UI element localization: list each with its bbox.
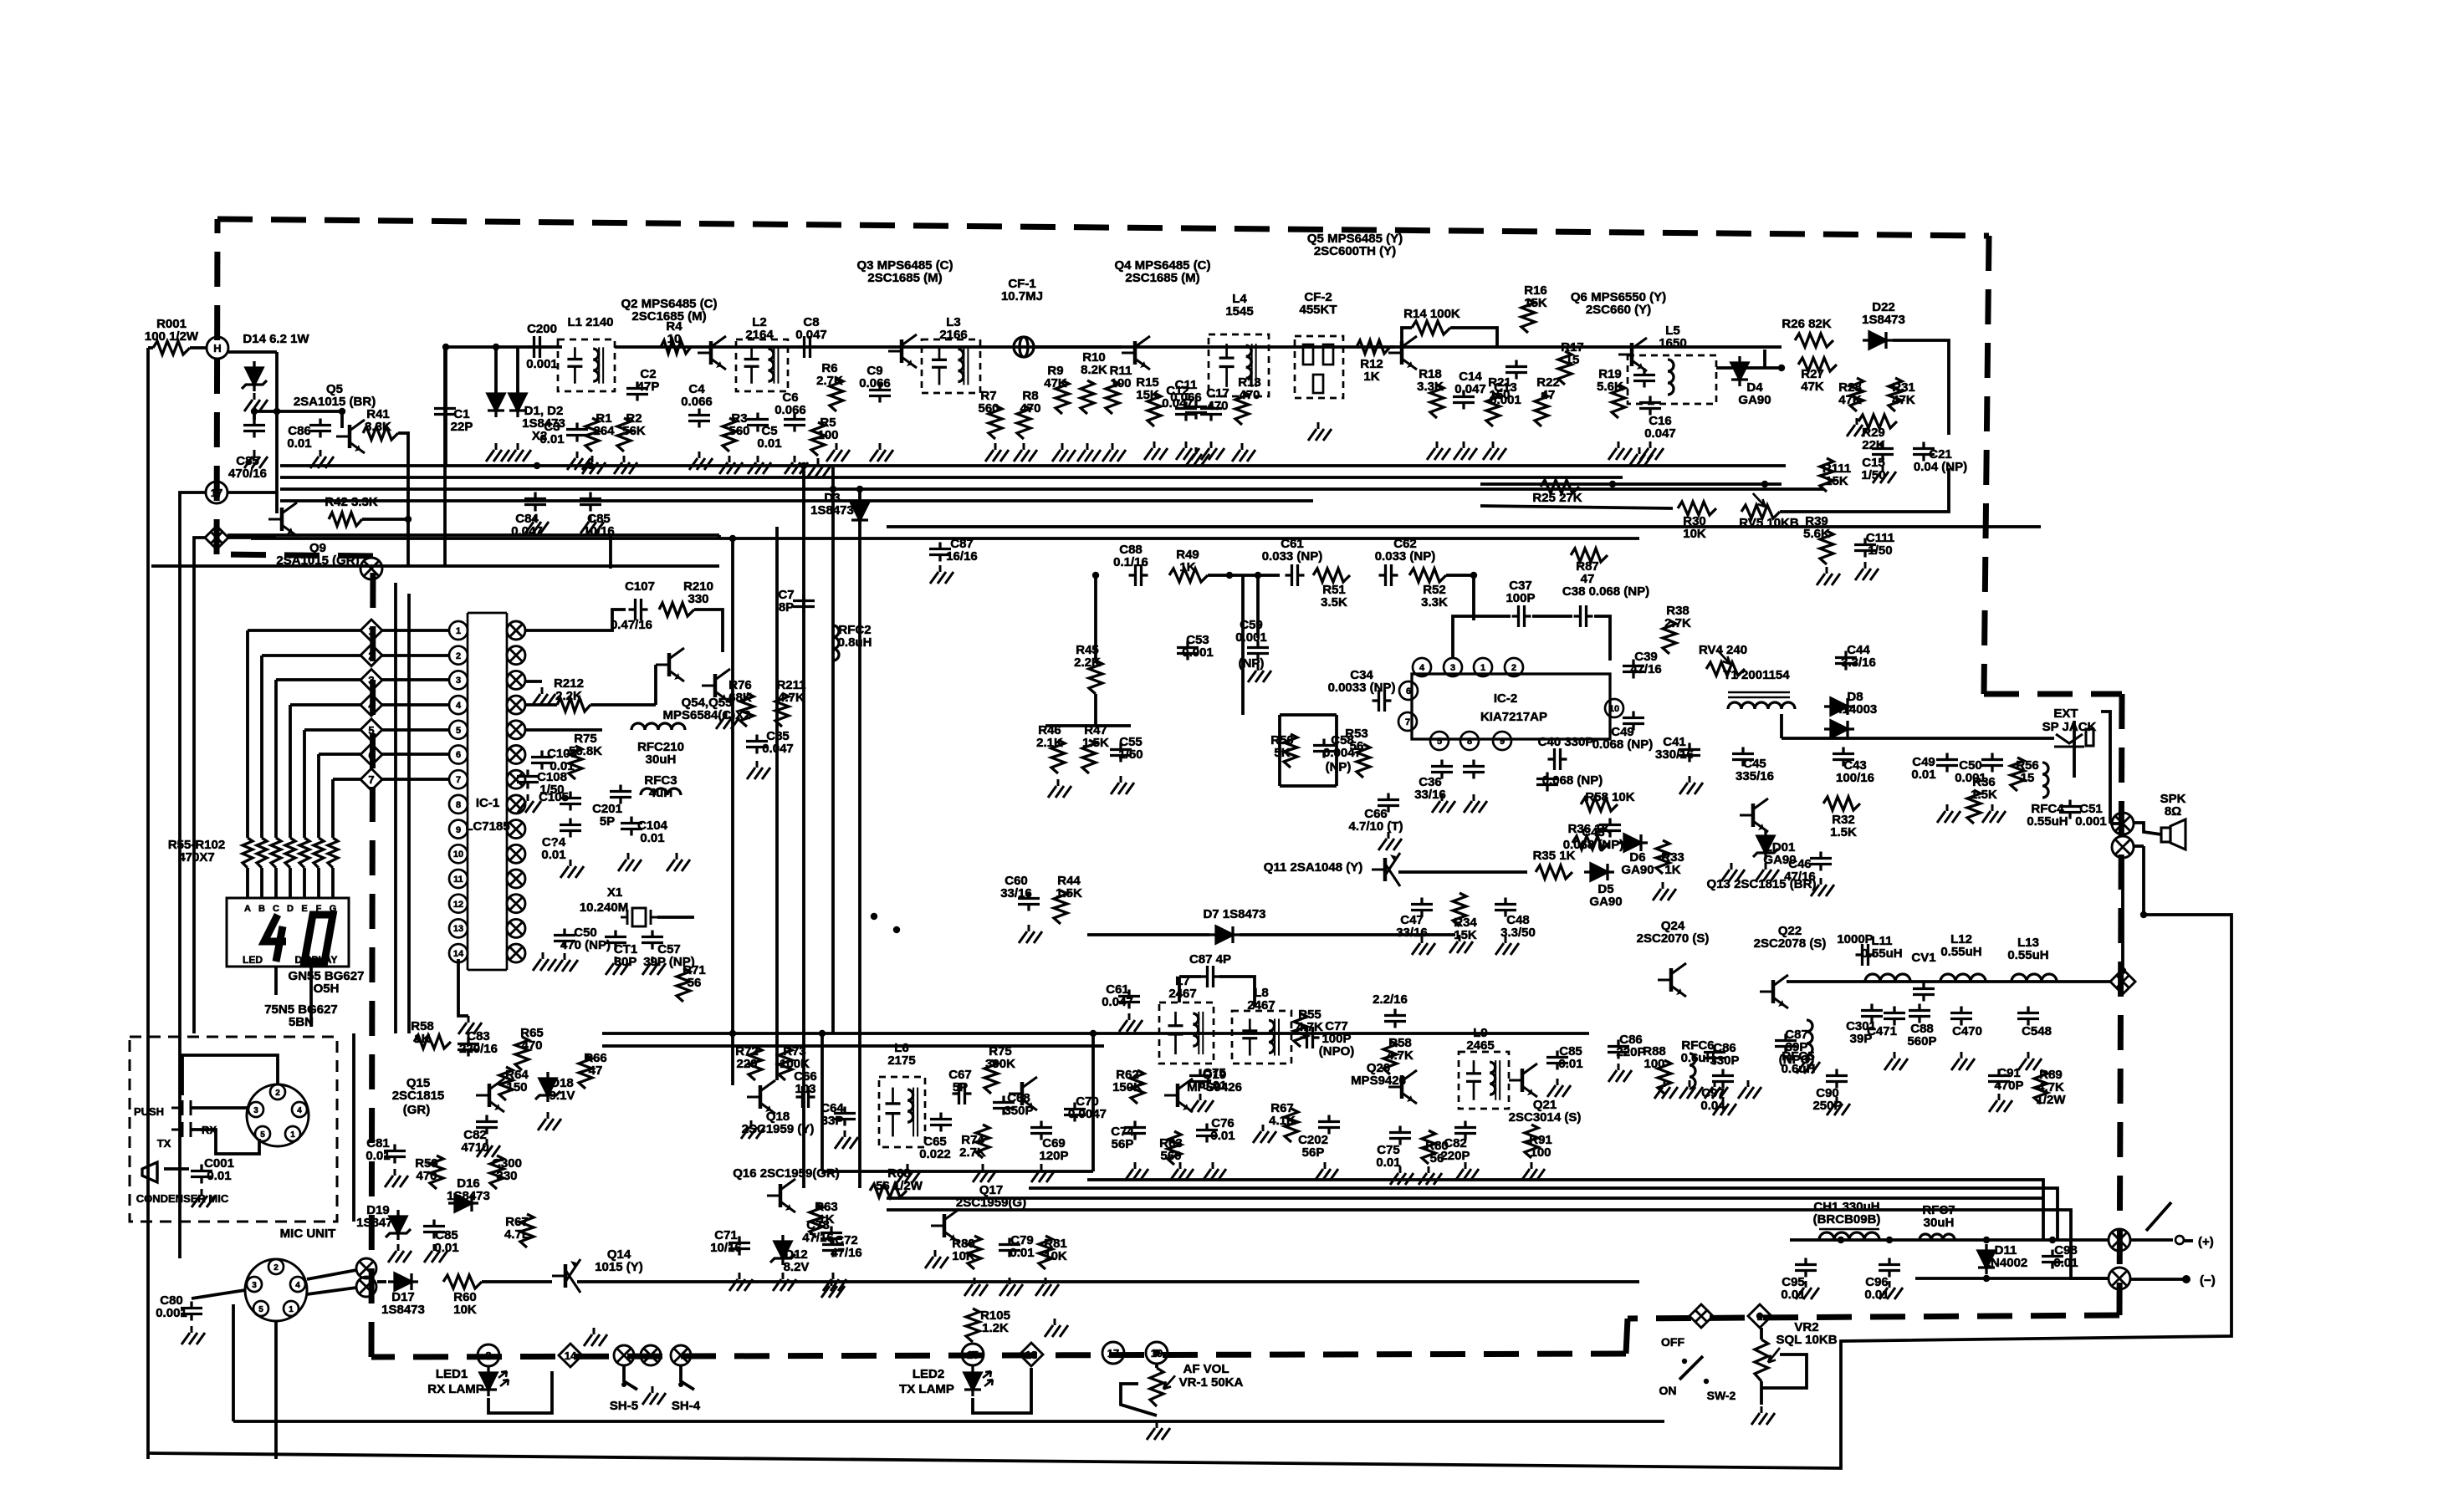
resistor R25 label <box>1532 491 1582 505</box>
resistor R41 3.3K <box>363 426 398 440</box>
wire riser Q18 area <box>731 1033 734 1085</box>
capacitor C7 8P <box>793 594 815 614</box>
wire node17 right <box>227 491 277 494</box>
capacitor C79 0.01 <box>999 1238 1020 1258</box>
wire channel line 2 to IC <box>382 654 449 657</box>
wire nested corner 2 <box>887 1210 2109 1278</box>
diode D2 1S8473 <box>509 387 526 417</box>
trimmer CT1 label <box>614 942 637 969</box>
svg-text:2SC1685 (M): 2SC1685 (M) <box>631 309 706 324</box>
wire IC-1 bottom <box>458 959 468 1016</box>
transistor Q14 label <box>595 1247 643 1274</box>
capacitor C107 0.47/16 <box>629 599 648 620</box>
ground row TX 3 <box>1705 1080 1728 1099</box>
wire VR1 top <box>1155 1363 1158 1368</box>
resistor R58 label <box>1585 790 1634 804</box>
svg-text:3: 3 <box>1450 663 1455 673</box>
resistor R44 label <box>1056 874 1082 900</box>
node 1 on bottom border <box>1748 1304 1771 1328</box>
capacitor C104 label <box>637 819 668 845</box>
resistor R30 10K <box>1678 502 1716 515</box>
capacitor C85 label <box>228 454 267 481</box>
capacitor C81 0.01 <box>384 1145 406 1164</box>
capacitor C2 47P <box>626 382 648 401</box>
wire R42 to right branch <box>362 518 408 521</box>
svg-text:15K: 15K <box>1454 928 1477 942</box>
resistor R105 label <box>980 1309 1010 1335</box>
svg-text:0.047: 0.047 <box>762 742 794 756</box>
svg-text:8.2K: 8.2K <box>1081 363 1107 377</box>
ground SH area <box>642 1386 666 1405</box>
coil L11 label <box>1861 934 1902 961</box>
wire long y677 <box>151 564 719 568</box>
svg-text:3.3K: 3.3K <box>1417 380 1444 394</box>
wire bus B line <box>280 476 1623 479</box>
wire NB box left <box>820 1033 824 1171</box>
wire bus AGC line <box>280 464 1786 467</box>
svg-text:3: 3 <box>368 674 374 686</box>
svg-text:0.01: 0.01 <box>539 432 564 446</box>
capacitor C78 47/16 <box>820 1227 842 1246</box>
transistor Q22 2SC2078 <box>1760 975 1788 1008</box>
pin IC-1 right pin 27 <box>507 721 525 739</box>
switch power plus lead <box>2130 1238 2173 1242</box>
transformer L9 2465 <box>1459 1052 1509 1109</box>
transistor Q15b label <box>403 1103 431 1117</box>
wire speaker feed <box>2110 822 2123 825</box>
resistor R32 1.5K <box>1823 797 1860 810</box>
wire VR1 tap <box>1121 1384 1157 1416</box>
transformer T1 label <box>1723 668 1790 682</box>
wire node16 left <box>194 538 205 1033</box>
svg-text:D7 1S8473: D7 1S8473 <box>1203 907 1265 921</box>
svg-text:2.2/16: 2.2/16 <box>1373 992 1408 1007</box>
capacitor C51 0.01 <box>1936 753 1958 773</box>
pin IC-2 pin 8 <box>1460 732 1479 750</box>
svg-text:SH-5: SH-5 <box>610 1399 638 1413</box>
svg-text:CONDENSER MIC: CONDENSER MIC <box>136 1192 229 1205</box>
capacitor C94 1000P <box>1856 944 1875 966</box>
node 14 on bottom border <box>559 1344 582 1367</box>
wire junction dot at 533,415 <box>442 344 449 350</box>
wire riser x533 <box>444 349 447 466</box>
ground below D1 <box>486 443 509 462</box>
resistor R5 100 <box>811 422 825 456</box>
svg-text:VR-1 50KA: VR-1 50KA <box>1179 1375 1244 1390</box>
svg-text:470: 470 <box>1239 388 1260 402</box>
text MIC UNIT label <box>280 1227 336 1241</box>
transistor Q6 label <box>1571 290 1666 317</box>
capacitor C50 470P <box>554 929 575 948</box>
capacitor C001 label <box>204 1156 234 1183</box>
wire junction dot at 1383,1618 <box>1153 1349 1160 1356</box>
svg-text:0.047: 0.047 <box>1102 995 1133 1009</box>
zener diode D18 9.1V <box>535 1072 560 1102</box>
resistor R89 label <box>2037 1068 2064 1094</box>
connector mic plug <box>247 1084 309 1146</box>
transistor Q7 MPS6485 <box>1388 336 1417 370</box>
pin IC-1 left pin 6 <box>449 746 468 764</box>
pin mic plug 2 <box>270 1084 285 1099</box>
svg-text:C87 4P: C87 4P <box>1189 952 1231 967</box>
wire from R001 to node H <box>190 346 207 349</box>
wire R45 riser <box>1094 575 1097 661</box>
node channel-select 1 <box>360 620 382 641</box>
svg-text:RV4 240: RV4 240 <box>1699 643 1747 657</box>
coil RFC4 0.55uH <box>2042 763 2048 798</box>
resistor R63b 560 <box>1168 1131 1181 1165</box>
resistor R27 label <box>1801 367 1824 394</box>
capacitor C74 56P <box>1124 1121 1146 1140</box>
capacitor C109 0.01 <box>560 819 581 838</box>
resistor R73 label <box>780 1044 810 1071</box>
capacitor C80 0.001 <box>181 1302 202 1321</box>
resistor R59 470 <box>430 1156 443 1189</box>
capacitor C85c label <box>1558 1044 1582 1071</box>
node 20 on inner dashed border <box>360 558 382 579</box>
crystal X1 freq label <box>580 900 628 915</box>
svg-text:CV1: CV1 <box>1911 951 1935 965</box>
svg-text:0.01: 0.01 <box>207 1169 231 1183</box>
diode D9 diode <box>1824 721 1854 737</box>
ground below C9 <box>870 443 893 462</box>
svg-text:390K: 390K <box>985 1057 1015 1071</box>
svg-text:0.066: 0.066 <box>774 403 806 417</box>
node 17 on left border <box>206 482 227 503</box>
ground below C36 <box>1432 794 1455 813</box>
coil RFC3 4uH <box>641 788 681 795</box>
capacitor C15 1/50 <box>1872 442 1894 462</box>
capacitor C471 470 <box>1884 1007 1905 1026</box>
wire bank to display 1 <box>246 868 249 898</box>
ground below C104 <box>618 853 642 871</box>
resistor R25 27K <box>1541 480 1579 493</box>
svg-text:10.240M: 10.240M <box>580 900 628 915</box>
ground below D2 <box>508 443 531 462</box>
ground below C109 <box>667 853 690 871</box>
capacitor C14 0.047 <box>1453 390 1475 410</box>
wire TX rail <box>1787 980 2110 983</box>
wire channel line 7 to IC <box>382 778 449 781</box>
ground below Q53 <box>716 711 739 729</box>
svg-text:3.3K: 3.3K <box>365 420 391 434</box>
resistor R6 label <box>816 361 843 388</box>
ground below C4 <box>689 451 713 470</box>
svg-text:T1 2001154: T1 2001154 <box>1723 668 1790 682</box>
ground below C80 <box>181 1326 205 1344</box>
pin IC-1 right pin 22 <box>507 844 525 863</box>
ground below Q12 <box>1721 863 1745 881</box>
coil CH1 label <box>1813 1200 1881 1227</box>
ground below C106 <box>747 761 770 779</box>
svg-text:0.033 (NP): 0.033 (NP) <box>1262 549 1323 564</box>
wire junction dot at 1045,1096 <box>871 913 877 920</box>
wire R001 left lead <box>148 346 153 349</box>
svg-text:220/16: 220/16 <box>459 1042 498 1056</box>
capacitor C85b label <box>583 512 615 538</box>
ground below R11 <box>1102 443 1126 462</box>
resistor R69 label <box>1425 1139 1449 1166</box>
svg-text:5: 5 <box>456 726 461 736</box>
capacitor C85b 10/16 <box>580 492 601 512</box>
transistor Q9 label <box>276 541 359 568</box>
potentiometer VR2 label <box>1776 1320 1837 1347</box>
resistor R75b 390K <box>984 1060 998 1094</box>
ground below R46 <box>1048 779 1071 798</box>
svg-text:10.7MJ: 10.7MJ <box>1001 289 1043 304</box>
node channel-select 5 <box>360 719 382 741</box>
transistor Q18b 2SC1959 <box>1009 1077 1037 1110</box>
svg-text:2.7K: 2.7K <box>1664 616 1691 630</box>
ground below C46 <box>1811 878 1834 896</box>
IC IC-1 label <box>476 796 499 810</box>
resistor R18 label <box>1417 367 1444 394</box>
resistor R2 56K <box>617 418 631 451</box>
switch SH-5 <box>624 1366 637 1390</box>
capacitor C103 label <box>547 747 577 773</box>
wire C59 riser <box>1256 575 1260 638</box>
svg-text:1545: 1545 <box>1225 304 1253 319</box>
ground below RFC5 <box>1797 1055 1820 1074</box>
transistor Q4 MPS6485 <box>1122 336 1150 370</box>
ground below C6 <box>785 456 808 474</box>
transistor Q14 1015 <box>552 1259 580 1293</box>
coil RFC6 label <box>1681 1038 1715 1065</box>
ground below C69 <box>1031 1164 1055 1182</box>
resistor R81 label <box>1044 1237 1067 1263</box>
transformer L3 2166 <box>922 339 980 393</box>
svg-text:R36 1K: R36 1K <box>1568 822 1611 836</box>
capacitor C13 label <box>1490 380 1521 407</box>
diode D3 1S8473 <box>851 497 868 527</box>
terminal minus label <box>2200 1273 2216 1288</box>
resistor R210 330 <box>659 603 694 616</box>
IC IC-2 part label <box>1480 710 1547 724</box>
svg-text:0.001: 0.001 <box>2075 814 2107 829</box>
svg-text:1S8473: 1S8473 <box>447 1189 490 1203</box>
svg-text:330: 330 <box>688 592 708 606</box>
IC IC-2 name label <box>1494 691 1517 706</box>
svg-text:1.5K: 1.5K <box>1830 825 1857 839</box>
potentiometer VR-1 AF VOL 50KA <box>1150 1368 1163 1406</box>
switch SW-2 power <box>1682 1359 1687 1364</box>
svg-text:2SC1685 (M): 2SC1685 (M) <box>867 271 942 285</box>
resistor R211 label <box>776 678 805 705</box>
resistor R55-R102 bank 2 <box>257 838 267 868</box>
resistor R211 4.7K <box>775 693 789 727</box>
transistor Q17 label <box>956 1183 1026 1210</box>
coil RFC7 label <box>1922 1203 1955 1230</box>
transistor Q17 2SC1959 <box>931 1209 959 1242</box>
switch SH-4 <box>681 1366 694 1390</box>
svg-text:150: 150 <box>1489 388 1510 402</box>
resistor R16 label <box>1524 283 1547 310</box>
svg-text:560P: 560P <box>1907 1034 1936 1048</box>
resistor R19 5.6K <box>1612 385 1625 418</box>
resistor R50 5K <box>1284 734 1297 768</box>
ground row TX 5 <box>1827 1097 1850 1115</box>
coil RFC210 label <box>637 740 684 767</box>
capacitor C13 0.001 <box>1505 360 1527 380</box>
svg-text:470 (NP): 470 (NP) <box>560 938 611 952</box>
svg-text:15K: 15K <box>1136 388 1159 402</box>
capacitor C69 120P <box>1030 1121 1052 1140</box>
zener diode D12 8.2V <box>770 1235 795 1265</box>
capacitor C21 0.04 NP <box>1913 442 1935 462</box>
LED display box <box>227 898 349 967</box>
ground below C35 <box>1464 794 1487 813</box>
pin IC-1 left pin 13 <box>449 919 468 937</box>
svg-text:D14 6.2 1W: D14 6.2 1W <box>243 332 309 346</box>
svg-text:470: 470 <box>416 1169 437 1183</box>
svg-text:100: 100 <box>1110 376 1131 390</box>
svg-text:3: 3 <box>456 676 461 686</box>
capacitor C82 label <box>461 1128 488 1155</box>
zener diode D14 6.2 1W <box>242 361 267 391</box>
svg-text:14: 14 <box>565 1349 577 1362</box>
svg-text:(BRCB09B): (BRCB09B) <box>1813 1212 1881 1227</box>
svg-text:0.001: 0.001 <box>1235 630 1267 645</box>
resistor R1 label <box>593 411 615 438</box>
svg-text:47P: 47P <box>637 380 660 394</box>
svg-text:TX LAMP: TX LAMP <box>899 1382 954 1396</box>
wire dashed border right lower edge <box>2119 694 2122 1315</box>
resistor R55 label <box>1296 1008 1323 1034</box>
svg-text:15: 15 <box>2021 771 2035 785</box>
svg-text:3.3K: 3.3K <box>1421 595 1448 610</box>
svg-text:1: 1 <box>456 626 461 636</box>
svg-text:1N4002: 1N4002 <box>1984 1256 2028 1270</box>
svg-text:Q13 2SC1815 (BR): Q13 2SC1815 (BR) <box>1707 877 1817 891</box>
transistor Q3 MPS6485 <box>888 334 917 368</box>
wire junction dot at 1307,1236 <box>1090 1030 1097 1037</box>
svg-text:6: 6 <box>1406 686 1411 696</box>
svg-text:5.6K: 5.6K <box>1597 380 1623 394</box>
ground below R13 <box>1232 443 1255 462</box>
potentiometer RV5 label <box>1739 516 1799 530</box>
svg-text:IC-1: IC-1 <box>476 796 499 810</box>
capacitor C6 0.066 <box>784 413 805 432</box>
text RX label <box>202 1124 217 1136</box>
capacitor C8 0.047 series <box>798 336 817 358</box>
ground pin30 stub <box>532 687 555 706</box>
wire dashed main PCB border top edge <box>217 219 1989 236</box>
terminal plus label <box>2198 1235 2214 1249</box>
resistor R17 label <box>1561 340 1584 367</box>
resistor R33 1K <box>1656 840 1669 874</box>
resistor R21 label <box>1488 375 1511 402</box>
node SP+ speaker <box>2112 813 2134 834</box>
wire rail C1 to L1 <box>445 345 562 349</box>
LED2 label label <box>912 1367 944 1381</box>
pin IC-1 left pin 14 <box>449 944 468 962</box>
capacitor C91 label <box>1994 1066 2023 1093</box>
svg-text:1/50: 1/50 <box>1118 747 1143 762</box>
diode D7 label <box>1203 907 1265 921</box>
svg-text:330: 330 <box>496 1169 517 1183</box>
resistor R67 label <box>504 1215 529 1242</box>
switch SH-5 label <box>610 1399 638 1413</box>
resistor R44 1.5K <box>1054 890 1067 924</box>
svg-text:RX LAMP: RX LAMP <box>427 1382 484 1396</box>
capacitor C68b label <box>1348 807 1403 834</box>
resistor R56b 4.7K <box>1383 1041 1397 1074</box>
capacitor C61 label <box>1262 537 1323 564</box>
ground below R69 <box>1419 1166 1442 1185</box>
capacitor C470 470 <box>1950 1007 1972 1026</box>
capacitor C43 label <box>1563 825 1624 852</box>
pin IC-2 pin 3 <box>1444 658 1462 676</box>
resistor R46 2.1K <box>1051 740 1065 773</box>
capacitor C301 39P <box>1861 1004 1883 1023</box>
diode D22 label <box>1862 300 1905 327</box>
capacitor C35 cap <box>1463 760 1485 779</box>
resistor R69 56 <box>1422 1130 1435 1164</box>
capacitor C70 0.0047 <box>1064 1103 1086 1122</box>
svg-text:15: 15 <box>1566 353 1580 367</box>
resistor R26 82K <box>1795 334 1833 347</box>
resistor R111 15K <box>1820 458 1833 492</box>
resistor R001 100 1/2W <box>153 341 190 355</box>
svg-text:7: 7 <box>368 773 374 786</box>
transformer L9 label <box>1466 1026 1494 1053</box>
wire junction dot at 593,415 <box>493 344 499 350</box>
capacitor C52 0.001 <box>1981 753 2003 773</box>
transformer L8 label <box>1247 986 1275 1013</box>
svg-text:1K: 1K <box>414 1032 430 1046</box>
wire dashed border right upper edge <box>1984 236 1989 694</box>
resistor R64 label <box>505 1068 529 1094</box>
resistor R75 56.8K <box>569 746 582 779</box>
pin IC-2 pin 7 <box>1398 712 1417 731</box>
capacitor C104 0.01 <box>621 817 642 836</box>
resistor R36 label <box>1971 775 1997 802</box>
svg-text:0.01: 0.01 <box>287 436 311 451</box>
capacitor C88b 560P <box>1909 1004 1930 1023</box>
wire nested corner 3 <box>1087 1180 2043 1240</box>
svg-text:H14003: H14003 <box>1833 702 1878 717</box>
capacitor C46 47/16 <box>1810 852 1832 871</box>
capacitor C71 10/16 <box>728 1237 750 1256</box>
transformer L7 2467 <box>1159 1002 1214 1064</box>
resistor R80 label <box>952 1237 975 1263</box>
ground below C14 <box>1454 441 1477 460</box>
wire junction dot at 876,1236 <box>729 1030 736 1037</box>
connector mic receptacle <box>245 1259 307 1321</box>
resistor R45 2.2K <box>1089 661 1102 694</box>
wire supply rail plus <box>1790 1238 2109 1242</box>
resistor R3 560 <box>723 418 736 451</box>
ground below R1 <box>582 456 606 474</box>
ground below C16b <box>1629 447 1653 466</box>
capacitor C59 NP label <box>1239 656 1265 671</box>
wire channel line 5 to IC <box>382 728 449 732</box>
resistor R51 3.5K <box>1313 569 1350 582</box>
capacitor C200 value label <box>526 357 558 371</box>
pin mic plug 4 <box>292 1102 307 1117</box>
resistor R4 10 series <box>661 340 691 354</box>
transformer L3 label <box>939 315 967 342</box>
wire Q11 emitter line <box>1398 870 1527 874</box>
svg-text:MPS9426: MPS9426 <box>1351 1074 1406 1088</box>
svg-text:7: 7 <box>1405 717 1410 727</box>
resistor R62 150K <box>1131 1070 1144 1104</box>
capacitor C81b 0.01 <box>423 1220 445 1239</box>
resistor R212 label <box>554 676 584 703</box>
pin mic plug 3 <box>248 1102 263 1117</box>
capacitor C46 label <box>1784 857 1816 884</box>
capacitor C49 0.068 <box>1623 712 1644 731</box>
